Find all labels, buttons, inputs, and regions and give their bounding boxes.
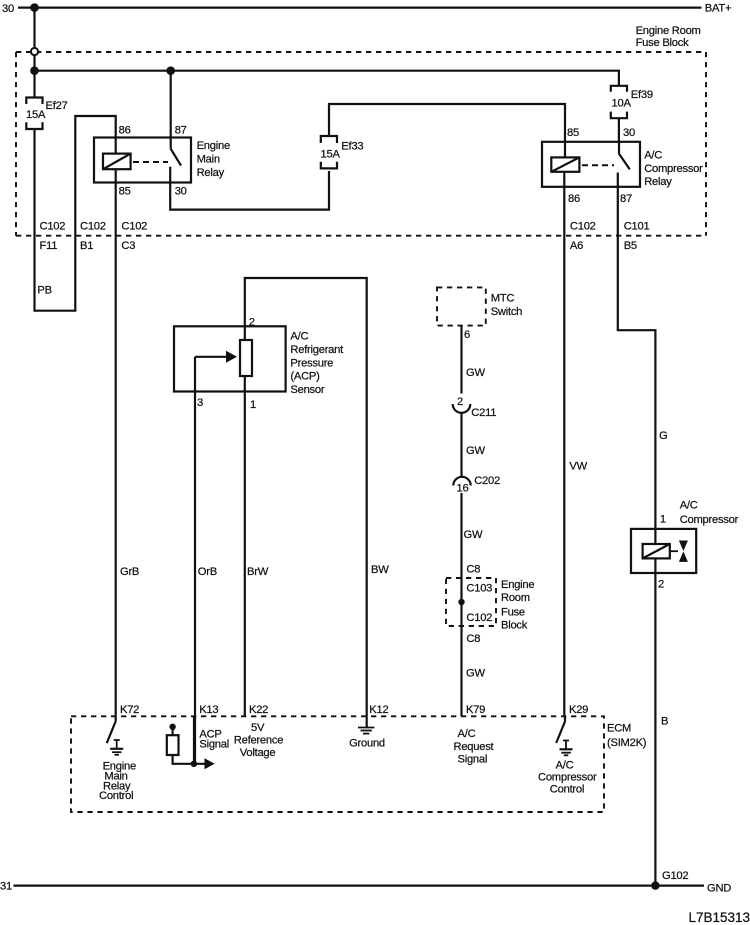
- svg-text:Sensor: Sensor: [290, 384, 324, 396]
- svg-text:G102: G102: [662, 870, 688, 882]
- svg-text:Compressor: Compressor: [538, 772, 597, 784]
- svg-text:Switch: Switch: [491, 306, 522, 318]
- svg-text:Signal: Signal: [458, 754, 488, 766]
- svg-text:31: 31: [0, 881, 12, 893]
- svg-text:Signal: Signal: [199, 739, 229, 751]
- svg-text:Engine: Engine: [501, 579, 534, 591]
- svg-text:C8: C8: [466, 564, 480, 576]
- svg-text:C102: C102: [40, 220, 66, 232]
- svg-text:87: 87: [175, 125, 187, 137]
- svg-text:16: 16: [457, 483, 469, 495]
- svg-text:G: G: [659, 430, 667, 442]
- svg-text:C102: C102: [466, 612, 492, 624]
- svg-text:Control: Control: [550, 784, 584, 796]
- svg-text:Ground: Ground: [349, 738, 385, 750]
- svg-text:Refrigerant: Refrigerant: [290, 344, 344, 356]
- svg-text:C102: C102: [121, 220, 147, 232]
- svg-text:Voltage: Voltage: [240, 747, 276, 759]
- svg-text:BAT+: BAT+: [705, 3, 731, 15]
- svg-text:BW: BW: [371, 564, 389, 576]
- svg-text:15A: 15A: [321, 149, 341, 161]
- svg-text:5V: 5V: [251, 722, 265, 734]
- svg-text:Control: Control: [99, 790, 133, 802]
- svg-text:K13: K13: [199, 704, 218, 716]
- svg-text:Relay: Relay: [644, 176, 672, 188]
- svg-text:Fuse: Fuse: [501, 607, 525, 619]
- svg-text:BrW: BrW: [247, 566, 269, 578]
- svg-text:Request: Request: [454, 741, 495, 753]
- svg-text:3: 3: [197, 397, 203, 409]
- svg-text:87: 87: [620, 193, 632, 205]
- svg-text:C202: C202: [474, 475, 500, 487]
- svg-text:30: 30: [2, 3, 14, 15]
- svg-text:86: 86: [568, 193, 580, 205]
- svg-text:Ef39: Ef39: [631, 89, 653, 101]
- svg-text:A6: A6: [570, 240, 583, 252]
- svg-text:K29: K29: [569, 704, 588, 716]
- svg-text:6: 6: [464, 329, 470, 341]
- svg-text:Pressure: Pressure: [290, 357, 333, 369]
- svg-text:Relay: Relay: [197, 167, 225, 179]
- svg-text:K72: K72: [120, 704, 139, 716]
- svg-text:Ef33: Ef33: [341, 140, 363, 152]
- svg-text:B: B: [661, 716, 668, 728]
- svg-text:L7B15313: L7B15313: [689, 910, 750, 925]
- svg-text:10A: 10A: [612, 97, 632, 109]
- svg-text:85: 85: [119, 186, 131, 198]
- svg-text:Compressor: Compressor: [680, 514, 739, 526]
- svg-text:Engine Room: Engine Room: [636, 25, 701, 37]
- svg-text:Main: Main: [197, 154, 220, 166]
- svg-text:GND: GND: [707, 883, 731, 895]
- svg-text:B1: B1: [80, 240, 93, 252]
- svg-text:(SIM2K): (SIM2K): [607, 737, 647, 749]
- svg-text:A/C: A/C: [644, 150, 662, 162]
- svg-text:F11: F11: [40, 240, 58, 252]
- svg-text:C3: C3: [121, 240, 135, 252]
- svg-text:GW: GW: [466, 668, 485, 680]
- svg-text:C101: C101: [624, 220, 650, 232]
- svg-text:Engine: Engine: [197, 140, 230, 152]
- svg-text:30: 30: [175, 186, 187, 198]
- svg-text:C103: C103: [466, 583, 492, 595]
- svg-text:C211: C211: [471, 407, 496, 419]
- svg-text:86: 86: [119, 125, 131, 137]
- svg-text:ECM: ECM: [607, 723, 631, 735]
- svg-text:15A: 15A: [26, 109, 46, 121]
- svg-text:Room: Room: [501, 592, 530, 604]
- svg-text:C102: C102: [80, 220, 106, 232]
- svg-text:A/C: A/C: [680, 500, 698, 512]
- svg-text:85: 85: [567, 127, 579, 139]
- svg-text:A/C: A/C: [556, 760, 574, 772]
- svg-text:OrB: OrB: [198, 566, 217, 578]
- svg-text:K22: K22: [249, 704, 268, 716]
- svg-text:Block: Block: [501, 620, 528, 632]
- svg-text:K12: K12: [369, 704, 388, 716]
- svg-text:GrB: GrB: [120, 566, 139, 578]
- svg-text:(ACP): (ACP): [290, 371, 320, 383]
- svg-text:MTC: MTC: [491, 293, 515, 305]
- svg-text:K79: K79: [466, 704, 485, 716]
- svg-text:GW: GW: [466, 445, 485, 457]
- svg-text:C102: C102: [570, 220, 596, 232]
- svg-text:Reference: Reference: [234, 734, 283, 746]
- svg-text:2: 2: [249, 317, 255, 329]
- svg-text:30: 30: [623, 127, 635, 139]
- svg-text:Compressor: Compressor: [644, 163, 703, 175]
- svg-text:B5: B5: [624, 240, 637, 252]
- svg-text:A/C: A/C: [458, 728, 476, 740]
- svg-text:GW: GW: [466, 367, 485, 379]
- svg-text:VW: VW: [569, 461, 587, 473]
- svg-text:Ef27: Ef27: [46, 100, 68, 112]
- svg-text:1: 1: [250, 399, 256, 411]
- svg-text:C8: C8: [466, 633, 480, 645]
- svg-text:2: 2: [457, 396, 463, 408]
- svg-text:PB: PB: [37, 285, 51, 297]
- svg-text:Fuse Block: Fuse Block: [636, 37, 689, 49]
- svg-text:A/C: A/C: [290, 331, 308, 343]
- svg-text:GW: GW: [464, 529, 483, 541]
- svg-text:1: 1: [660, 513, 666, 525]
- svg-text:2: 2: [658, 579, 664, 591]
